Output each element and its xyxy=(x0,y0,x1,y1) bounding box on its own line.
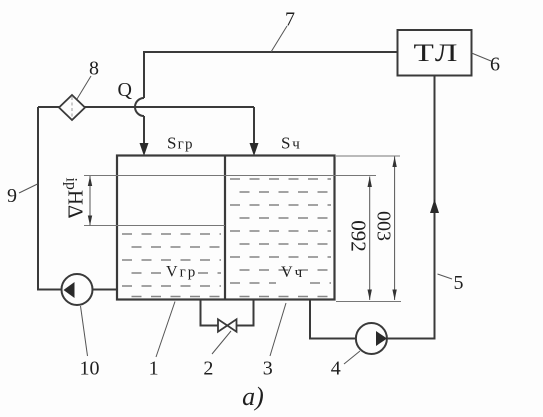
svg-text:7: 7 xyxy=(285,9,295,31)
wire: Q horizontal line from left riser through flow sensor to right branch xyxy=(38,106,254,108)
svg-text:3: 3 xyxy=(263,358,273,380)
dimension 300 line xyxy=(394,157,396,301)
pump 4 circle xyxy=(356,323,387,354)
tank outline xyxy=(117,156,335,300)
svg-text:6: 6 xyxy=(490,54,500,76)
leader line 2 xyxy=(212,331,231,354)
wire: left riser (line 9) xyxy=(38,107,62,290)
extension line tank top right xyxy=(336,155,400,157)
svg-text:Vгр: Vгр xyxy=(166,264,197,281)
pump 4 triangle (points right) xyxy=(376,331,387,346)
water surface line left compartment (y=225.5) xyxy=(84,225,225,227)
leader line 3 xyxy=(270,303,286,356)
wire: vertical down to Sgr arrow xyxy=(143,116,145,144)
wire: vertical hop over Q line (semicircle bulging left) xyxy=(135,98,144,116)
drain loop with valve 2 under tank xyxy=(201,300,219,326)
svg-text:1: 1 xyxy=(149,358,159,380)
svg-text:092: 092 xyxy=(347,220,371,252)
leader line 7 xyxy=(271,26,287,52)
extension baseline bottom right xyxy=(336,301,401,303)
svg-text:Sч: Sч xyxy=(281,134,302,153)
leader line 9 xyxy=(19,184,38,193)
pump 10 circle xyxy=(62,274,93,305)
flow sensor 8 (diamond with dashed axis) xyxy=(59,95,85,120)
wire: line 5 vertical from TL box down to pump 4 run xyxy=(434,76,436,339)
arrowhead into Sgr compartment xyxy=(140,143,149,156)
svg-text:003: 003 xyxy=(373,211,395,241)
leader line 1 xyxy=(156,302,175,358)
svg-text:Sгр: Sгр xyxy=(167,134,194,153)
leader line 8 xyxy=(77,76,91,99)
water dashes left compartment Vgr xyxy=(122,234,221,297)
leader line 6 xyxy=(472,53,492,61)
svg-text:ТЛ: ТЛ xyxy=(414,40,461,67)
wire: tank outlet down to pump 4 xyxy=(310,300,356,339)
svg-text:Vч: Vч xyxy=(281,264,304,281)
svg-text:а): а) xyxy=(242,382,264,411)
svg-text:Q: Q xyxy=(117,79,132,101)
arrowhead up on line 5 xyxy=(430,199,439,213)
svg-text:8: 8 xyxy=(89,58,99,80)
svg-text:4: 4 xyxy=(331,358,341,380)
wire: pump 10 outlet to tank xyxy=(93,289,118,291)
leader line 10 xyxy=(81,306,88,356)
svg-text:2: 2 xyxy=(203,358,213,380)
svg-text:9: 9 xyxy=(7,185,17,207)
water dashes right compartment Vch xyxy=(230,179,331,297)
water level reference line (upper, y=176) xyxy=(84,175,376,177)
svg-text:10: 10 xyxy=(80,358,100,380)
dimension 290 line xyxy=(369,177,371,301)
dimension dHpi: line with arrows xyxy=(89,176,91,226)
valve 2 bowtie xyxy=(218,319,227,331)
wire: pump 4 outlet to line 5 xyxy=(387,338,436,340)
arrowhead into Sch compartment xyxy=(250,143,259,156)
pump 10 triangle (points left) xyxy=(64,282,75,298)
wire: line 7 horizontal from vertical riser to TL box xyxy=(144,52,397,98)
svg-text:5: 5 xyxy=(454,272,464,294)
tank divider xyxy=(224,156,226,300)
wire: branch down to Sch arrow xyxy=(253,107,255,144)
leader line 5 xyxy=(438,274,453,279)
leader line 4 xyxy=(344,351,360,364)
TL box U6 xyxy=(398,30,472,76)
